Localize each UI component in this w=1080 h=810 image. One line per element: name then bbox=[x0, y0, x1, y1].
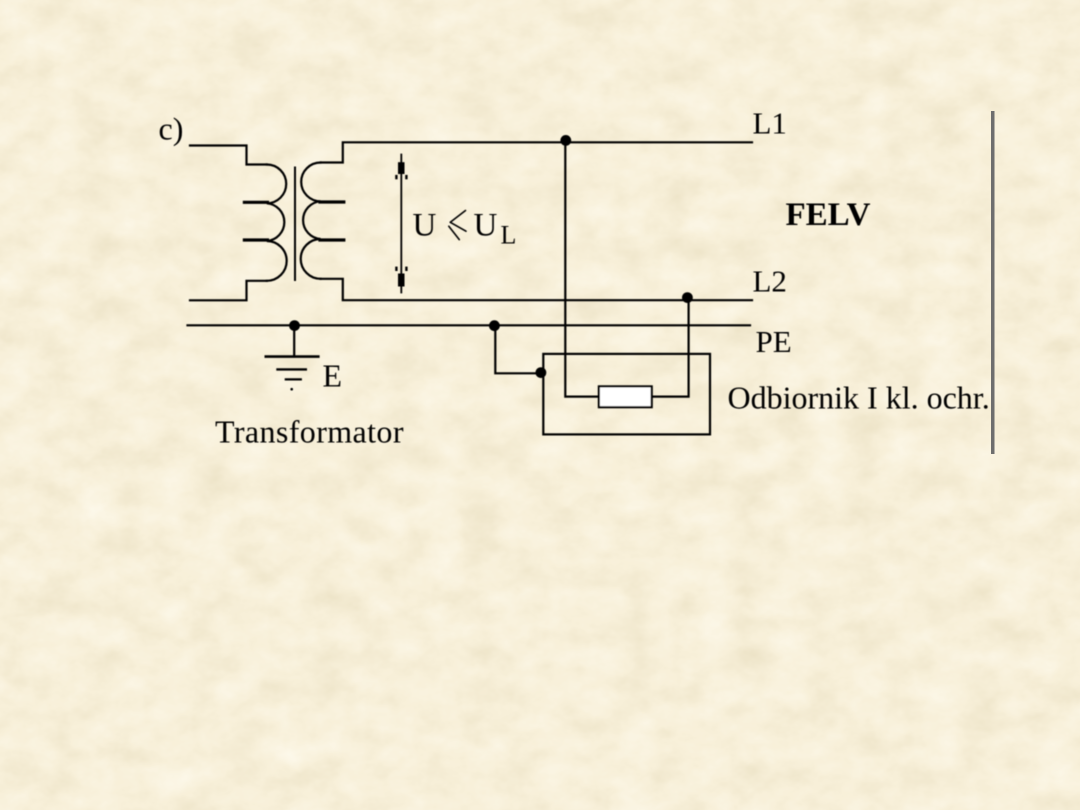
svg-text:c): c) bbox=[159, 111, 184, 147]
wire: primary bottom lead bbox=[190, 281, 267, 301]
secondary tap mark 1 bbox=[320, 200, 344, 203]
less-or-equal symbol bbox=[449, 211, 466, 240]
transformer T1 secondary winding bbox=[301, 163, 321, 279]
ground bar 1 bbox=[266, 355, 319, 358]
arrow head bottom bbox=[398, 274, 405, 287]
wire: primary top lead bbox=[190, 146, 267, 165]
junction node on L1 bbox=[560, 135, 571, 146]
primary tap mark 1 bbox=[244, 201, 267, 204]
wire: drop from L1 to load resistor bbox=[565, 142, 599, 396]
svg-text:Transformator: Transformator bbox=[215, 414, 404, 450]
junction node on L2 bbox=[682, 292, 693, 303]
svg-text:E: E bbox=[323, 358, 343, 394]
right border bar bbox=[991, 111, 995, 454]
voltage arrow line bbox=[400, 155, 402, 293]
arrow head top bbox=[398, 162, 405, 174]
svg-text:L2: L2 bbox=[753, 264, 787, 299]
wire: L1 line from secondary top bbox=[321, 142, 752, 162]
junction node PE/earth bbox=[289, 320, 300, 331]
enclosure box of load bbox=[543, 354, 710, 435]
junction node on enclosure bbox=[536, 367, 547, 378]
wire: resistor to L2 riser bbox=[652, 300, 689, 396]
svg-text:U: U bbox=[413, 208, 437, 244]
ground bar 2 bbox=[278, 368, 306, 370]
primary tap mark 2 bbox=[244, 238, 267, 241]
transformer core bbox=[294, 168, 296, 281]
svg-text:L: L bbox=[501, 220, 517, 249]
resistor R (load) bbox=[599, 386, 652, 407]
svg-text:U: U bbox=[474, 208, 498, 244]
transformer T1 primary winding bbox=[267, 165, 287, 281]
wire: L2 line from secondary bottom bbox=[321, 279, 752, 300]
wire: PE to enclosure bbox=[495, 325, 540, 373]
secondary tap mark 2 bbox=[320, 238, 344, 241]
svg-text:PE: PE bbox=[756, 324, 792, 359]
ground bar 3 bbox=[286, 378, 301, 380]
svg-text:Odbiornik I kl. ochr.: Odbiornik I kl. ochr. bbox=[728, 380, 990, 416]
ground lead bbox=[293, 325, 295, 356]
wire: PE line bbox=[188, 324, 751, 326]
junction node PE tap bbox=[489, 320, 500, 331]
svg-text:L1: L1 bbox=[753, 106, 787, 141]
ground stray dot bbox=[290, 388, 293, 391]
svg-text:FELV: FELV bbox=[786, 197, 871, 233]
